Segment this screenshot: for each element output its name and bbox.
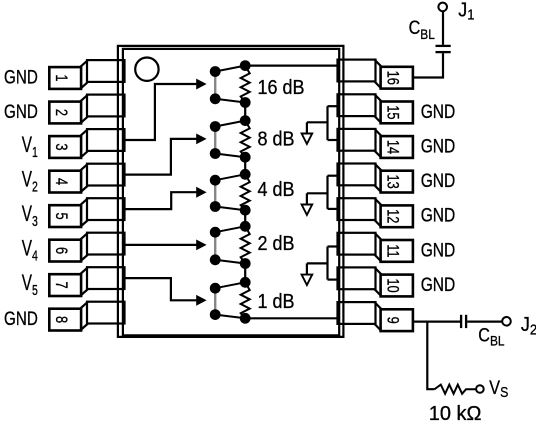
svg-text:GND: GND [421, 170, 456, 192]
wire R1 to R2 [244, 103, 246, 121]
arrowhead (switch 5 control) [196, 295, 206, 306]
wire pin 9 to junction and C_BL [413, 321, 460, 323]
pin 2 lead [87, 95, 125, 117]
resistor R1 (16 dB) [241, 66, 250, 103]
svg-text:3: 3 [51, 143, 69, 150]
svg-text:J1: J1 [458, 0, 474, 23]
switch S4 contact wires [215, 226, 245, 232]
svg-text:4 dB: 4 dB [258, 179, 295, 201]
pin 12 box [381, 205, 413, 227]
svg-text:1: 1 [51, 74, 69, 81]
wire feed from pin 6 to switch 4 [123, 244, 198, 246]
arrowhead (switch 4 control) [196, 240, 206, 251]
arrowhead (switch 3 control) [196, 187, 206, 198]
arrowhead (switch 2 control) [196, 134, 206, 145]
wire feed from pin 3 to switch 1 [123, 84, 198, 140]
svg-text:5: 5 [51, 213, 69, 220]
pin 16 box [381, 67, 413, 89]
wire feed from pin 5 to switch 3 [123, 192, 198, 209]
pin 13 box [381, 171, 413, 193]
svg-text:7: 7 [51, 282, 69, 289]
switch S3 bar [214, 180, 216, 206]
switch S3 contact dots [210, 175, 221, 186]
pin 1 box [49, 67, 81, 89]
svg-text:16: 16 [383, 71, 401, 85]
svg-text:16 dB: 16 dB [258, 77, 305, 99]
pin 6 box [49, 240, 81, 262]
wire C_BL to J1 [442, 11, 444, 45]
svg-text:8: 8 [51, 316, 69, 323]
svg-text:J2: J2 [521, 314, 536, 337]
ground (open triangle) 3 [302, 275, 313, 285]
wire pin 16 to C_BL [413, 53, 443, 77]
IC body outer border [118, 46, 344, 337]
switch S2 contact dots [210, 121, 221, 132]
pin 7 lead [87, 267, 125, 289]
svg-text:2: 2 [51, 109, 69, 116]
svg-text:12: 12 [383, 209, 401, 223]
svg-text:13: 13 [383, 174, 401, 188]
pin 1 lead [87, 60, 125, 82]
svg-text:GND: GND [4, 100, 38, 122]
switch S5 contact dots [210, 283, 221, 294]
svg-text:GND: GND [4, 66, 38, 88]
switch S2 contact wires [215, 121, 245, 127]
switch S3 contact wires [215, 174, 245, 180]
svg-text:V2: V2 [22, 168, 38, 195]
resistor 10 kOhm [435, 385, 477, 394]
pin 8 lead [87, 302, 125, 324]
pin 9 box [381, 309, 413, 331]
pin 5 lead [87, 198, 125, 220]
pin 10 box [381, 275, 413, 297]
svg-text:V4: V4 [22, 237, 38, 264]
resistor R3 (4 dB) [241, 174, 250, 210]
resistor R4 (2 dB) [241, 226, 250, 263]
pin 5 box [49, 205, 81, 227]
svg-text:CBL: CBL [478, 324, 504, 348]
svg-text:V3: V3 [22, 203, 38, 230]
svg-text:15: 15 [383, 105, 401, 119]
node V_S (open circle) [476, 385, 484, 393]
pin 2 box [49, 102, 81, 124]
node dots R2 [240, 115, 251, 126]
wire R4 to R5 [244, 264, 246, 283]
pin 15 lead [338, 94, 376, 116]
connector J2 (open circle) [502, 317, 511, 326]
wire R3 to R4 [244, 210, 246, 226]
pin 14 lead [338, 129, 376, 151]
pin 3 lead [87, 129, 125, 151]
ground (open triangle) 2 [302, 205, 313, 215]
node dots R4 [240, 221, 251, 232]
svg-text:GND: GND [421, 273, 456, 295]
pin 7 box [49, 274, 81, 296]
pin 15 box [381, 102, 413, 124]
pin 1 indicator circle [135, 57, 158, 80]
connector J1 (open circle) [438, 3, 447, 12]
pin 4 lead [87, 164, 125, 186]
switch S2 bar [214, 127, 216, 154]
pin 11 box [381, 240, 413, 262]
wire feed from pin 4 to switch 2 [123, 139, 198, 175]
node dots R3 [240, 169, 251, 180]
svg-text:9: 9 [383, 317, 401, 324]
pin 6 lead [87, 233, 125, 255]
pin 14 box [381, 136, 413, 158]
resistor R2 (8 dB) [241, 121, 250, 158]
switch S4 bar [214, 232, 216, 260]
wire feed from pin 7 to switch 5 [123, 278, 198, 300]
GND bracket pins 11/10 [326, 247, 328, 280]
wire R2 to R3 [244, 157, 246, 174]
svg-text:GND: GND [421, 100, 456, 122]
svg-text:6: 6 [51, 247, 69, 254]
switch S4 contact dots [210, 227, 221, 238]
svg-text:2 dB: 2 dB [258, 233, 295, 255]
svg-text:4: 4 [51, 178, 69, 185]
switch S1 contact dots [210, 66, 221, 77]
svg-text:GND: GND [421, 204, 456, 226]
wire R5 bottom to pin 9 [245, 317, 339, 319]
pin 16 lead [338, 60, 376, 82]
arrowhead (switch 1 control) [196, 79, 206, 90]
wire C_BL to J2 [467, 321, 502, 323]
resistor R5 (1 dB) [241, 282, 250, 318]
svg-text:GND: GND [421, 135, 456, 157]
switch S5 bar [214, 288, 216, 314]
IC body inner border [123, 49, 339, 336]
wire junction down to resistor [427, 322, 434, 390]
pin 11 lead [338, 233, 376, 255]
capacitor C_BL (bottom) [460, 315, 462, 328]
pin 12 lead [338, 198, 376, 220]
svg-text:8 dB: 8 dB [258, 128, 295, 150]
switch S1 contact wires [215, 66, 245, 72]
pin 8 box [49, 309, 81, 331]
ground (open triangle) 1 [302, 134, 313, 144]
svg-text:GND: GND [421, 239, 456, 261]
wire R1 top to pin 16 [245, 64, 339, 66]
svg-text:VS: VS [489, 377, 508, 400]
GND bracket pins 13/12 [326, 176, 328, 209]
GND bracket pins 15/14 [326, 106, 328, 140]
svg-text:14: 14 [383, 140, 401, 154]
node dots R5 [240, 277, 251, 288]
svg-text:10 kΩ: 10 kΩ [429, 403, 482, 425]
pin 10 lead [338, 267, 376, 289]
svg-text:GND: GND [4, 307, 38, 329]
svg-text:V1: V1 [22, 133, 38, 160]
pin 3 box [49, 136, 81, 158]
svg-text:V5: V5 [22, 272, 38, 299]
pin 4 box [49, 171, 81, 193]
svg-text:11: 11 [383, 244, 401, 257]
node dots R1 [240, 60, 251, 71]
svg-text:10: 10 [383, 278, 401, 292]
pin 9 lead [338, 302, 376, 324]
capacitor C_BL (top) [436, 51, 451, 53]
switch S5 contact wires [215, 282, 245, 288]
svg-text:1 dB: 1 dB [258, 291, 295, 313]
switch S1 bar [214, 72, 216, 99]
svg-text:CBL: CBL [409, 17, 435, 42]
pin 13 lead [338, 164, 376, 186]
